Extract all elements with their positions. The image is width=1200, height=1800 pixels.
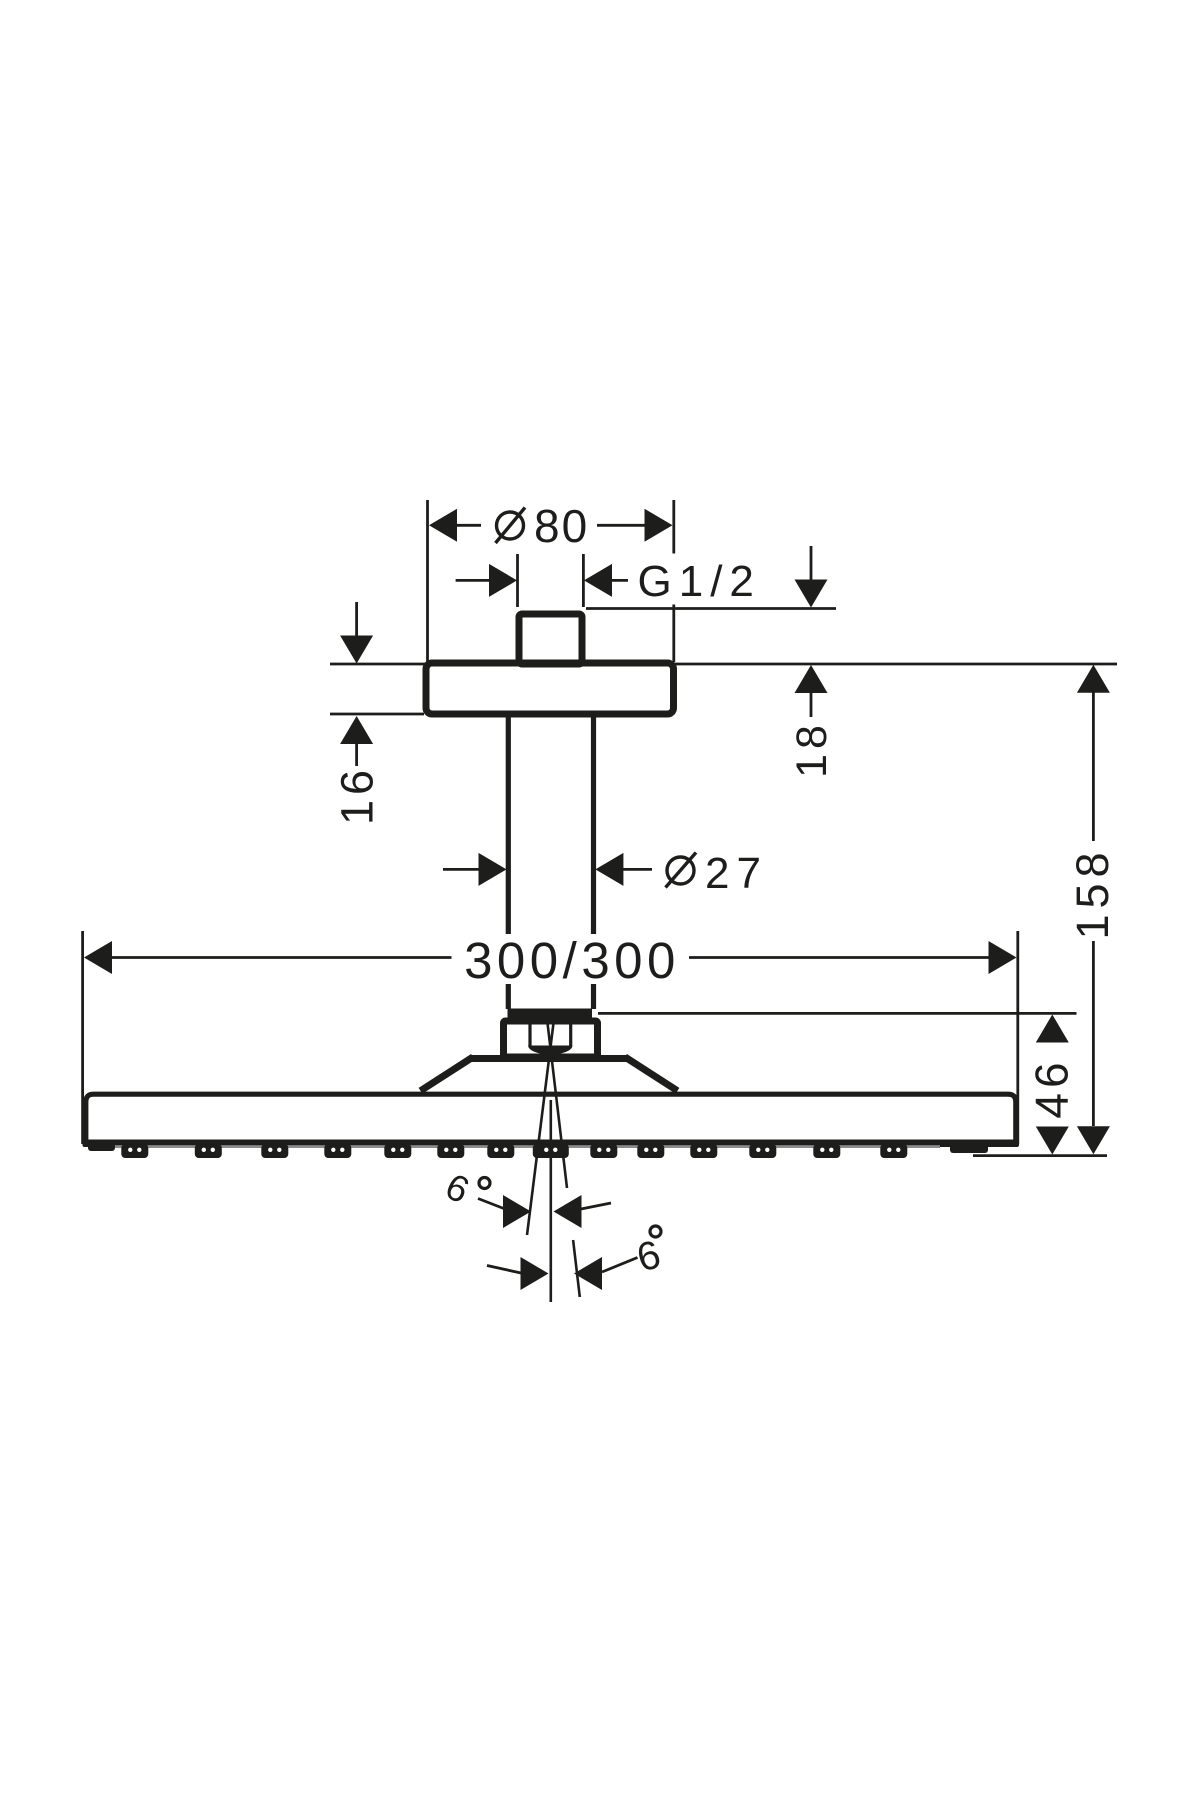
angle dim lower left arrow <box>487 1266 521 1274</box>
svg-text:300/300: 300/300 <box>464 932 680 989</box>
spray axis right 6deg line <box>548 1023 580 1297</box>
ball joint nut <box>504 1021 598 1057</box>
svg-text:18: 18 <box>788 720 836 778</box>
dim 46 bottom extension line <box>973 1154 1107 1157</box>
dim 300/300 right arrow <box>989 941 1017 974</box>
cone top edge <box>470 1055 628 1062</box>
nozzle dots <box>128 1148 900 1152</box>
dim G1/2 right arrow <box>584 564 612 597</box>
dim 18 bottom arrow <box>795 665 828 693</box>
dim Ø80 left arrow <box>429 509 457 542</box>
svg-text:46: 46 <box>1026 1057 1078 1118</box>
dim 46 top arrow <box>1036 1015 1069 1043</box>
dim Ø80 label diameter symbol <box>497 512 524 539</box>
dim 46 bottom arrow <box>1036 1127 1069 1155</box>
nut inner left facet <box>528 1021 531 1046</box>
dim 158 bottom arrow <box>1077 1126 1110 1154</box>
nozzle row <box>88 1140 988 1158</box>
dim 158 dimension line <box>1092 692 1095 1126</box>
angle dim lower right arrow <box>574 1257 602 1290</box>
svg-text:16: 16 <box>332 765 383 825</box>
pipe end cap <box>508 1009 593 1021</box>
shower head bottom band <box>83 1140 1020 1148</box>
spray plate highlight <box>112 1145 940 1148</box>
dim 300/300 right extension line <box>1016 931 1019 1144</box>
nipple top extension line <box>586 607 836 610</box>
connection nipple G1/2 <box>519 614 582 664</box>
angle dim upper right arrow <box>554 1195 582 1228</box>
dim G1/2 left extension line <box>516 554 519 607</box>
svg-text:27: 27 <box>705 849 768 898</box>
svg-text:80: 80 <box>534 500 589 552</box>
shower head body <box>86 1094 1016 1141</box>
spray axis center line <box>549 1100 552 1302</box>
dim Ø27 left arrow <box>443 868 480 871</box>
cone right slope <box>625 1057 678 1091</box>
shower arm pipe left wall <box>506 717 511 1009</box>
ceiling line <box>330 663 1117 666</box>
dim 300/300 left extension line <box>81 931 84 1144</box>
dim 46 top extension line <box>598 1012 1077 1015</box>
dim Ø80 right arrow <box>645 509 673 542</box>
dim 158 top arrow <box>1077 665 1110 693</box>
dim Ø80 left extension line <box>426 500 429 662</box>
ball joint cup <box>528 1046 572 1055</box>
dim 16 bottom arrow <box>340 716 373 744</box>
dim 300/300 dimension line <box>110 956 991 959</box>
dim 16 top arrow <box>355 602 358 638</box>
dim 300/300 left arrow <box>84 941 112 974</box>
spray axis left 6deg line <box>527 1023 554 1235</box>
svg-text:G1/2: G1/2 <box>638 557 761 606</box>
dim G1/2 right extension line <box>582 554 585 607</box>
dim Ø27 right arrow <box>595 853 623 886</box>
dim Ø80 right extension line <box>672 500 675 662</box>
dim 18 top arrow <box>810 546 813 580</box>
shower arm pipe right wall <box>591 717 596 1009</box>
flange bottom extension line <box>330 713 424 716</box>
angle dim upper left arrow <box>478 1199 505 1210</box>
svg-text:158: 158 <box>1067 846 1118 939</box>
nut inner right facet <box>569 1021 572 1046</box>
cone left slope <box>421 1057 474 1091</box>
dim Ø27 label diameter symbol <box>667 857 694 884</box>
ceiling flange escutcheon <box>426 663 674 714</box>
dim G1/2 left arrow <box>489 564 517 597</box>
